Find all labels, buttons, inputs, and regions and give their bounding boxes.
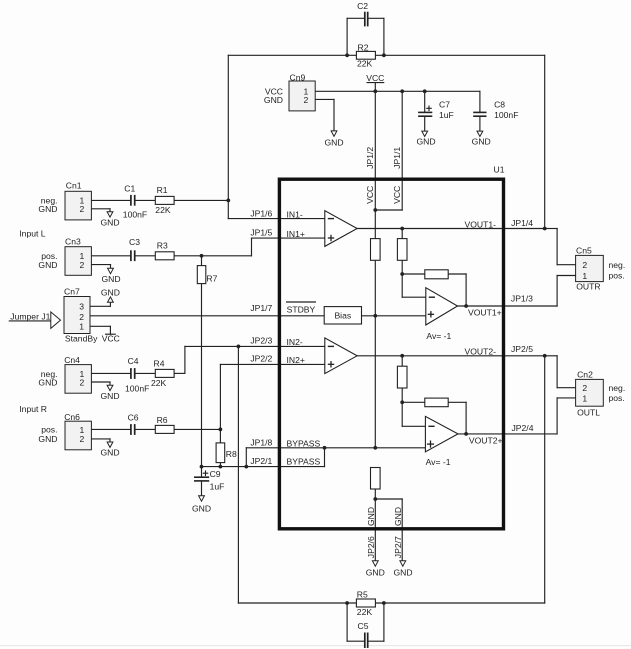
svg-text:2: 2 <box>80 377 85 387</box>
svg-text:R6: R6 <box>157 415 168 425</box>
svg-text:100nF: 100nF <box>123 210 147 220</box>
svg-text:GND: GND <box>101 288 120 298</box>
svg-text:GND: GND <box>366 507 376 526</box>
svg-text:BYPASS: BYPASS <box>287 456 321 466</box>
svg-text:neg.: neg. <box>609 383 626 393</box>
svg-text:GND: GND <box>393 507 403 526</box>
svg-text:Cn9: Cn9 <box>290 72 306 82</box>
svg-text:22K: 22K <box>357 607 373 617</box>
svg-text:GND: GND <box>472 136 491 146</box>
svg-text:2: 2 <box>304 95 309 105</box>
svg-text:JP1/8: JP1/8 <box>250 437 272 447</box>
svg-text:JP2/6: JP2/6 <box>366 536 376 558</box>
svg-text:2: 2 <box>80 260 85 270</box>
svg-text:JP2/2: JP2/2 <box>250 354 272 364</box>
svg-text:C7: C7 <box>439 100 450 110</box>
svg-text:Input R: Input R <box>19 404 47 414</box>
svg-text:C2: C2 <box>357 1 368 11</box>
svg-text:OUTL: OUTL <box>577 407 600 417</box>
svg-text:VCC: VCC <box>366 73 384 83</box>
svg-text:pos.: pos. <box>41 425 57 435</box>
svg-text:JP2/7: JP2/7 <box>393 536 403 558</box>
svg-text:neg.: neg. <box>609 260 626 270</box>
svg-text:VOUT2-: VOUT2- <box>464 346 496 356</box>
svg-text:JP2/4: JP2/4 <box>512 423 534 433</box>
svg-text:GND: GND <box>192 503 211 513</box>
svg-text:C4: C4 <box>128 356 139 366</box>
svg-text:1: 1 <box>582 271 587 281</box>
svg-text:GND: GND <box>38 377 57 387</box>
svg-text:pos.: pos. <box>609 393 625 403</box>
svg-text:R2: R2 <box>358 42 369 52</box>
svg-text:VOUT1+: VOUT1+ <box>468 307 502 317</box>
svg-text:Cn6: Cn6 <box>64 412 80 422</box>
svg-text:1: 1 <box>582 393 587 403</box>
svg-text:GND: GND <box>38 260 57 270</box>
svg-text:C5: C5 <box>358 621 369 631</box>
svg-text:Av= -1: Av= -1 <box>426 457 451 467</box>
svg-text:C6: C6 <box>128 412 139 422</box>
svg-text:Cn4: Cn4 <box>64 355 80 365</box>
svg-text:JP1/2: JP1/2 <box>365 147 375 169</box>
svg-text:2: 2 <box>79 312 84 322</box>
svg-text:JP2/3: JP2/3 <box>250 336 272 346</box>
svg-text:JP2/1: JP2/1 <box>250 456 272 466</box>
svg-text:GND: GND <box>324 137 343 147</box>
svg-text:C1: C1 <box>124 183 135 193</box>
svg-text:GND: GND <box>100 391 119 401</box>
svg-text:1uF: 1uF <box>210 482 225 492</box>
svg-text:R7: R7 <box>206 273 217 283</box>
svg-text:Cn7: Cn7 <box>64 287 80 297</box>
svg-text:2: 2 <box>80 434 85 444</box>
svg-text:IN1+: IN1+ <box>287 229 305 239</box>
svg-text:Cn1: Cn1 <box>66 181 82 191</box>
svg-text:C8: C8 <box>494 100 505 110</box>
svg-text:R3: R3 <box>157 241 168 251</box>
svg-text:100nF: 100nF <box>125 384 149 394</box>
svg-text:22K: 22K <box>357 59 373 69</box>
svg-text:GND: GND <box>264 95 283 105</box>
svg-text:StandBy: StandBy <box>65 333 98 343</box>
svg-text:Cn2: Cn2 <box>577 369 593 379</box>
svg-text:GND: GND <box>416 136 435 146</box>
svg-text:JP1/6: JP1/6 <box>250 208 272 218</box>
svg-text:VOUT1-: VOUT1- <box>464 219 496 229</box>
svg-text:2: 2 <box>582 383 587 393</box>
svg-text:IN2+: IN2+ <box>287 355 305 365</box>
svg-text:Jumper J1: Jumper J1 <box>10 311 50 321</box>
svg-text:VCC: VCC <box>365 186 375 204</box>
svg-text:VCC: VCC <box>392 186 402 204</box>
svg-text:22K: 22K <box>155 205 171 215</box>
svg-text:R5: R5 <box>357 590 368 600</box>
svg-text:GND: GND <box>100 217 119 227</box>
svg-text:1uF: 1uF <box>439 110 454 120</box>
svg-text:GND: GND <box>100 448 119 458</box>
svg-text:Av= -1: Av= -1 <box>426 331 451 341</box>
svg-text:JP1/5: JP1/5 <box>250 227 272 237</box>
svg-text:JP1/4: JP1/4 <box>511 218 533 228</box>
svg-text:JP1/7: JP1/7 <box>250 303 272 313</box>
svg-text:VOUT2+: VOUT2+ <box>469 436 503 446</box>
svg-text:GND: GND <box>101 274 120 284</box>
svg-text:C9: C9 <box>210 469 221 479</box>
svg-text:1: 1 <box>79 322 84 332</box>
svg-text:IN1-: IN1- <box>287 209 303 219</box>
svg-text:JP1/3: JP1/3 <box>511 294 533 304</box>
svg-text:pos.: pos. <box>609 271 625 281</box>
svg-text:C3: C3 <box>129 237 140 247</box>
svg-text:VCC: VCC <box>102 333 120 343</box>
svg-text:2: 2 <box>80 204 85 214</box>
svg-text:STDBY: STDBY <box>287 304 316 314</box>
svg-text:BYPASS: BYPASS <box>287 438 321 448</box>
svg-text:Input L: Input L <box>19 229 46 239</box>
svg-text:100nF: 100nF <box>494 110 518 120</box>
svg-text:GND: GND <box>393 568 412 578</box>
svg-text:R8: R8 <box>226 449 237 459</box>
svg-text:Cn3: Cn3 <box>65 236 81 246</box>
svg-text:Bias: Bias <box>334 311 351 321</box>
svg-text:Cn5: Cn5 <box>576 246 592 256</box>
svg-text:GND: GND <box>38 434 57 444</box>
svg-text:22K: 22K <box>151 378 167 388</box>
svg-text:R4: R4 <box>154 358 165 368</box>
svg-text:JP2/5: JP2/5 <box>511 344 533 354</box>
svg-text:GND: GND <box>38 204 57 214</box>
svg-text:R1: R1 <box>157 185 168 195</box>
svg-text:GND: GND <box>366 568 385 578</box>
svg-text:U1: U1 <box>494 165 505 175</box>
svg-text:IN2-: IN2- <box>287 337 303 347</box>
svg-text:3: 3 <box>79 302 84 312</box>
svg-text:JP1/1: JP1/1 <box>392 147 402 169</box>
svg-text:2: 2 <box>582 260 587 270</box>
svg-text:OUTR: OUTR <box>576 281 600 291</box>
